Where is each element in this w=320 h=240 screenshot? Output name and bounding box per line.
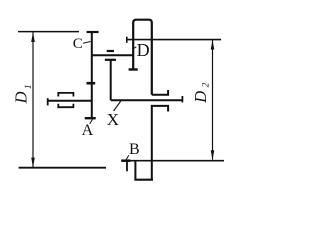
label A leader bbox=[90, 119, 93, 124]
dimension D1 line bbox=[32, 32, 34, 167]
dimension D1 bottom extension line bbox=[19, 167, 106, 169]
gear D housing rectangle bbox=[133, 20, 152, 95]
gear D bottom bar bbox=[129, 68, 138, 70]
gear B box left bbox=[134, 162, 136, 180]
dimension D2 arrow up bbox=[211, 40, 215, 50]
label D leader bbox=[134, 47, 137, 49]
svg-text:X: X bbox=[107, 110, 119, 129]
gear crossbar on shaft C bbox=[87, 82, 96, 85]
shaft C bottom bar A bbox=[85, 117, 96, 119]
gear T stem bbox=[110, 60, 112, 100]
clutch upper foot bbox=[152, 90, 168, 95]
dimension D2 arrow down bbox=[211, 150, 215, 160]
svg-text:B: B bbox=[129, 141, 140, 158]
middle shaft X bbox=[111, 99, 183, 101]
gear D shaft cap bbox=[126, 37, 128, 43]
middle shaft end cap bbox=[181, 96, 183, 102]
dimension D2 line bbox=[212, 40, 214, 160]
dimension D1 arrow up bbox=[31, 32, 35, 42]
svg-text:A: A bbox=[82, 122, 94, 139]
svg-text:D: D bbox=[137, 40, 150, 60]
mesh dash above shaft bbox=[107, 50, 114, 52]
dimension D1 top extension line bbox=[18, 31, 79, 33]
dimension D1 arrow down bbox=[31, 158, 35, 168]
svg-text:C: C bbox=[73, 36, 83, 52]
horizontal shaft C to D bbox=[92, 54, 133, 56]
label C leader bbox=[83, 42, 91, 44]
coupling bracket below bbox=[58, 104, 73, 108]
left shaft end cap bbox=[47, 98, 49, 105]
label X leader bbox=[114, 101, 121, 111]
gear T bar below shaft bbox=[105, 59, 116, 61]
shaft B left bar bbox=[121, 159, 130, 162]
shaft C vertical bbox=[91, 32, 93, 118]
shaft B horizontal bbox=[121, 160, 224, 162]
gear D shaft bbox=[126, 39, 221, 41]
clutch lower foot and right vertical bbox=[152, 106, 168, 180]
coupling bracket above bbox=[58, 93, 73, 97]
shaft B stem bbox=[126, 161, 128, 172]
left shaft bbox=[48, 100, 92, 102]
gear B box bottom bbox=[134, 179, 153, 181]
label B leader bbox=[126, 155, 129, 160]
shaft C top bar bbox=[87, 31, 99, 33]
